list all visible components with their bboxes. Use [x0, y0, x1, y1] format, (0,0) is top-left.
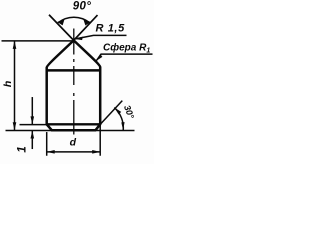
leader Sfera R1 line and shelf: [96, 54, 152, 61]
arrow R1,5 leader: [75, 37, 83, 41]
arrow 90 arc right: [83, 19, 91, 26]
wire: chamfer top extension line left: [20, 124, 47, 126]
wire: cone angle construction legs (X over apex): [49, 15, 98, 41]
arrow d right: [92, 150, 100, 154]
svg-text:30°: 30°: [122, 104, 136, 121]
centerline (vertical axis): [73, 29, 75, 135]
svg-text:Сфера R1: Сфера R1: [103, 41, 150, 54]
part outline body: [47, 40, 100, 130]
wire: dome base edge line: [47, 69, 100, 72]
arrow h top: [13, 41, 17, 49]
dimension d line: [47, 151, 100, 153]
dimension l upper tail: [31, 97, 33, 124]
dimension l lower tail: [31, 130, 33, 149]
svg-text:1: 1: [17, 146, 29, 152]
wire: bottom extension line: [6, 129, 135, 131]
arrow h bottom: [13, 122, 17, 130]
svg-text:h: h: [2, 81, 14, 87]
leader R1,5 line and shelf: [76, 35, 127, 38]
svg-text:90°: 90°: [73, 1, 92, 13]
arrow Sfera leader: [96, 54, 102, 61]
svg-text:d: d: [70, 137, 77, 149]
arrow 30 arc top: [114, 108, 121, 115]
dimension h line: [14, 41, 16, 130]
extension line d left: [46, 132, 48, 156]
arrow l up (lower): [31, 130, 35, 138]
arrow 30 arc bottom: [121, 122, 124, 130]
arc 30 degree dimension: [114, 108, 123, 131]
arrow d left: [47, 150, 55, 154]
arrow 90 arc left: [57, 19, 64, 26]
wire: chamfer extension line 30deg: [100, 101, 122, 125]
arc 90 degree dimension: [58, 17, 90, 23]
wire: extension line h top (apex level): [2, 40, 73, 42]
extension line d right: [99, 125, 101, 156]
wire: bottom edge thick: [52, 129, 96, 132]
arrow l down (upper): [31, 116, 35, 124]
svg-text:R 1,5: R 1,5: [96, 23, 126, 35]
wire: chamfer top edge line (thick inside part): [47, 123, 100, 125]
